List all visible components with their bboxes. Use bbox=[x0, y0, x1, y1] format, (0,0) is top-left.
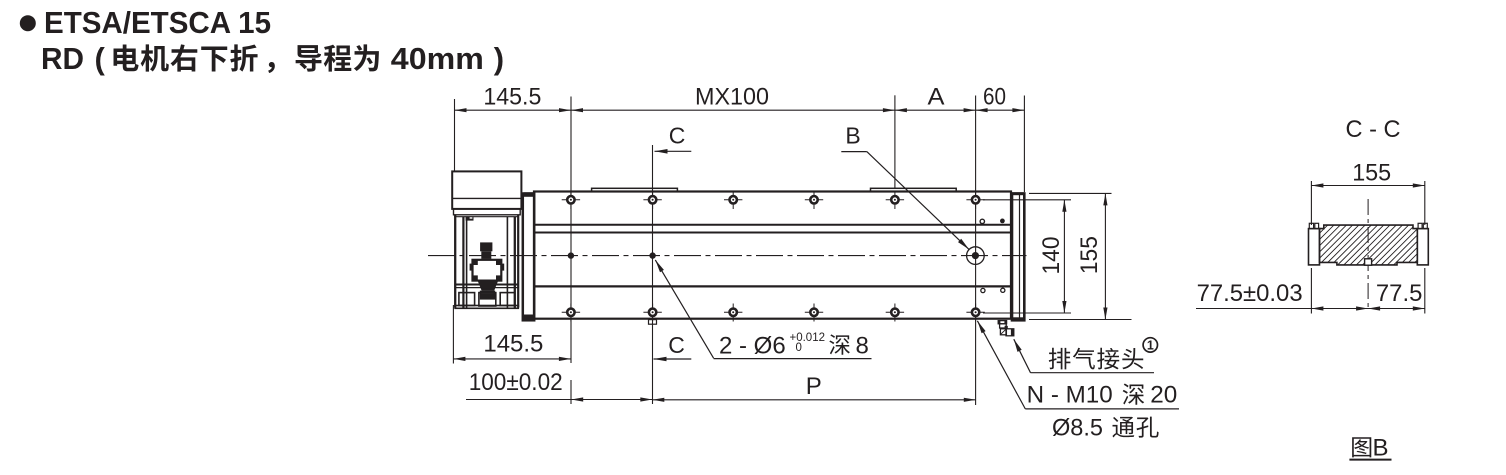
motor shaft neck bbox=[481, 251, 491, 259]
motor base box right bbox=[500, 293, 515, 306]
screw hole top row #2 bbox=[643, 199, 661, 201]
vent hole ring bottom-left bbox=[981, 288, 985, 292]
section bottom notch bbox=[1365, 259, 1372, 265]
svg-text:145.5: 145.5 bbox=[483, 84, 541, 111]
svg-text:C: C bbox=[669, 123, 686, 149]
svg-text:145.5: 145.5 bbox=[483, 330, 543, 357]
motor feet bbox=[480, 291, 495, 300]
label C top arrow bbox=[655, 150, 692, 152]
screw hole top row #4 bbox=[805, 199, 823, 201]
section center line bbox=[1367, 199, 1369, 310]
title line2 comma bbox=[268, 62, 275, 73]
figure label underline bbox=[1349, 459, 1391, 461]
right end plate bbox=[1012, 194, 1024, 321]
section left cap bbox=[1309, 229, 1320, 265]
svg-text:2 - Ø6: 2 - Ø6 bbox=[719, 332, 786, 359]
screw hole top row #6 bbox=[966, 199, 984, 201]
motor cross band bbox=[455, 284, 518, 286]
svg-text:ETSA/ETSCA 15: ETSA/ETSCA 15 bbox=[44, 5, 271, 40]
top dim extension x1024.4 bbox=[1023, 96, 1025, 193]
body outline bbox=[534, 192, 1011, 319]
dim 140 extension lines bbox=[983, 199, 1071, 201]
svg-text:1: 1 bbox=[1147, 339, 1154, 353]
exhaust label leader bbox=[1014, 339, 1031, 373]
dim 140 line bbox=[1063, 200, 1065, 313]
N-M10 underline bbox=[1025, 408, 1179, 410]
pin dot mid B (datum for 2-O6) bbox=[649, 252, 655, 258]
motor base box left bbox=[459, 293, 475, 306]
title bullet bbox=[20, 15, 36, 31]
motor top box bbox=[452, 171, 521, 209]
center line (dash-dot) bbox=[428, 255, 1027, 257]
exhaust label underline bbox=[1031, 372, 1155, 374]
vent hole dot top-right bbox=[1000, 219, 1005, 224]
svg-text:155: 155 bbox=[1076, 236, 1103, 274]
small mark below body at C column bbox=[649, 320, 657, 325]
left end plate caps bbox=[524, 192, 535, 197]
callout 2-O6 underline bbox=[714, 358, 872, 360]
figure label 图B bbox=[1352, 437, 1371, 457]
body internal line y286.4 bbox=[534, 285, 1011, 287]
section dim 155 extensions bbox=[1310, 181, 1312, 225]
N-M10 text 深 (depth) bbox=[1123, 384, 1144, 405]
svg-text:N - M10: N - M10 bbox=[1027, 381, 1113, 408]
svg-text:140: 140 bbox=[1038, 237, 1065, 275]
top dimension line bbox=[455, 109, 1025, 111]
svg-text:C - C: C - C bbox=[1346, 116, 1401, 143]
svg-text:77.5±0.03: 77.5±0.03 bbox=[1197, 280, 1303, 307]
top rail tab 1 bbox=[592, 188, 678, 191]
top dim extension x894.9 bbox=[894, 95, 896, 189]
motor shaft head bbox=[480, 242, 492, 251]
screw hole bottom row #4 bbox=[805, 311, 823, 313]
svg-text:77.5: 77.5 bbox=[1376, 280, 1423, 307]
N-M10 leader bbox=[977, 321, 1025, 409]
screw hole top row #5 bbox=[886, 199, 904, 201]
O8.5 text 通孔 bbox=[1112, 417, 1134, 438]
motor bracket verticals left bbox=[454, 215, 456, 308]
motor bracket verticals right bbox=[506, 217, 508, 308]
B target circle bbox=[967, 247, 985, 265]
body internal line y232.5 bbox=[534, 232, 1011, 234]
svg-text:RD: RD bbox=[41, 41, 84, 76]
screw hole bottom row #3 bbox=[724, 311, 742, 313]
svg-text:C: C bbox=[668, 332, 685, 358]
motor coupling box bbox=[473, 260, 502, 281]
title line2 CJK 电机右下折 bbox=[114, 45, 139, 72]
exhaust fitting bbox=[998, 321, 1006, 324]
section dim 77.5 line bbox=[1196, 308, 1425, 310]
svg-text:): ) bbox=[494, 41, 504, 76]
svg-text:B: B bbox=[1373, 435, 1389, 462]
body internal line y224.7 bbox=[534, 224, 1011, 226]
motor base plate bbox=[455, 306, 518, 309]
section dim 77.5 extensions bbox=[1310, 268, 1312, 314]
dim P line bbox=[652, 399, 976, 401]
motor thin band bbox=[454, 209, 521, 215]
pin dot mid A bbox=[568, 252, 574, 258]
dim 145.5 bottom line bbox=[453, 358, 571, 360]
svg-text:8: 8 bbox=[856, 332, 869, 359]
left end plate bbox=[523, 194, 534, 321]
label B leader bbox=[841, 151, 867, 153]
top dim extension x975.6 (through body to P line) bbox=[975, 96, 977, 406]
svg-text:40mm: 40mm bbox=[391, 41, 484, 76]
screw hole top row #3 bbox=[724, 199, 742, 201]
svg-text:B: B bbox=[845, 123, 860, 149]
motor connector notch bbox=[466, 216, 474, 220]
screw hole bottom row #5 bbox=[886, 311, 904, 313]
screw hole bottom row #2 bbox=[643, 311, 661, 313]
svg-text:A: A bbox=[928, 84, 945, 111]
screw hole bottom row #1 bbox=[562, 311, 580, 313]
exhaust label circled 1 bbox=[1143, 338, 1157, 352]
svg-text:(: ( bbox=[95, 41, 106, 76]
vent hole ring top-left bbox=[980, 219, 984, 223]
exhaust label text 排气接头 bbox=[1049, 348, 1071, 370]
svg-text:Ø8.5: Ø8.5 bbox=[1052, 414, 1103, 441]
dim 155 extension lines bbox=[1029, 192, 1112, 194]
dim 100±0.02 line bbox=[466, 399, 652, 401]
callout text 深 (depth) bbox=[829, 334, 850, 354]
top rail tab 2 bbox=[871, 188, 957, 191]
svg-text:60: 60 bbox=[983, 84, 1006, 111]
vent hole ring bottom-right bbox=[1001, 288, 1005, 292]
motor bracket top line bbox=[454, 216, 519, 218]
svg-text:100±0.02: 100±0.02 bbox=[469, 369, 563, 396]
svg-text:0: 0 bbox=[796, 342, 802, 354]
dim 145.5 bottom extension left bbox=[452, 305, 454, 364]
top dim extension x571 (through body) bbox=[570, 97, 572, 364]
label C bottom arrow bbox=[654, 358, 692, 360]
arrowheads top dim bbox=[455, 108, 467, 112]
screw hole bottom row #6 bbox=[966, 311, 984, 313]
motor base box middle bbox=[479, 293, 496, 306]
title line2 CJK 导程为 bbox=[296, 45, 322, 71]
svg-text:MX100: MX100 bbox=[695, 84, 769, 111]
top dim extension x454.5 bbox=[454, 99, 456, 171]
section line C x652.5 bbox=[652, 145, 654, 404]
section right cap bbox=[1417, 229, 1428, 265]
dim 155 line bbox=[1104, 193, 1106, 319]
section dim 155 line bbox=[1311, 185, 1424, 187]
svg-text:155: 155 bbox=[1352, 159, 1391, 186]
svg-text:20: 20 bbox=[1150, 381, 1177, 408]
screw hole top row #1 bbox=[562, 199, 580, 201]
callout 2-O6 leader bbox=[655, 260, 713, 358]
motor lower trapezoid bbox=[478, 281, 499, 291]
svg-text:P: P bbox=[806, 373, 822, 400]
right end plate caps bbox=[1012, 192, 1025, 195]
